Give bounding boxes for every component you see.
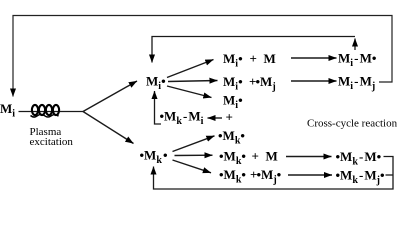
wire row5 product connector: [386, 174, 394, 176]
wire fan Mk to row4: [175, 154, 213, 156]
wire fork to Mk biradical: [83, 112, 134, 144]
svg-text:•Mk•+•Mj•: •Mk•+•Mj•: [219, 167, 282, 186]
wire bottom recycle loop (Mk products back to Mk hub): [154, 157, 394, 190]
svg-text:Mi - M•: Mi - M•: [338, 51, 377, 70]
wire inner recycle loop (Mi-M back to Mi radical): [152, 37, 355, 63]
svg-text:Cross-cycle reaction: Cross-cycle reaction: [307, 118, 398, 130]
svg-text:•Mk•+M: •Mk•+M: [219, 149, 278, 168]
wire up-arrow from Mi-M into inner loop: [354, 39, 356, 51]
svg-text:•Mk - Mi: •Mk - Mi: [160, 109, 204, 128]
svg-text:•Mk •: •Mk •: [140, 148, 168, 167]
wire row2 reaction arrow: [291, 80, 337, 82]
svg-text:•Mk - M•: •Mk - M•: [336, 149, 382, 168]
wire L feedback Mk-Mi to Mi radical: [155, 91, 162, 124]
svg-text:Mi•+•Mj: Mi•+•Mj: [223, 74, 276, 93]
coil plasma excitation: [31, 105, 60, 117]
wire fan Mi to row1: [167, 60, 214, 78]
svg-text:Mi•: Mi•: [223, 93, 243, 112]
svg-text:Mi - Mj: Mi - Mj: [338, 74, 375, 93]
wire row1 reaction arrow: [291, 57, 337, 59]
svg-text:Mi: Mi: [0, 101, 15, 120]
wire fork to Mi radical: [83, 81, 137, 112]
wire cross-cycle left arrow: [208, 117, 223, 119]
wire fan Mi to row3: [167, 86, 212, 98]
svg-text:+: +: [226, 110, 233, 125]
wire fan Mk to row5: [173, 160, 212, 173]
svg-text:Mi•+M: Mi•+M: [223, 51, 276, 70]
svg-text:•Mk•: •Mk•: [218, 128, 245, 147]
wire row5 reaction arrow: [288, 174, 332, 176]
svg-text:Mi•: Mi•: [146, 74, 166, 93]
svg-text:excitation: excitation: [30, 136, 74, 148]
wire fan Mi to row2: [168, 81, 218, 82]
svg-text:•Mk - Mj•: •Mk - Mj•: [336, 168, 386, 187]
wire fan Mk to row3 (cross-cycle reactant): [173, 136, 215, 152]
wire precursor line: [19, 111, 84, 113]
wire outer recycle loop (Mi-Mj back to Mi precursor): [13, 16, 392, 97]
wire row4 reaction arrow: [286, 156, 332, 158]
